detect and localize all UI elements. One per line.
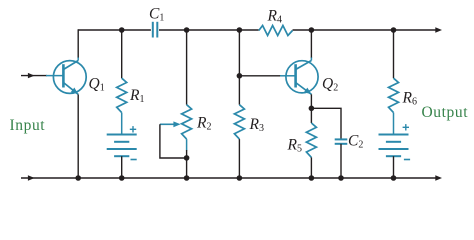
wire Q1 collector to top rail: [77, 29, 79, 57]
wire top rail: [78, 29, 436, 31]
battery B1: [107, 135, 137, 157]
wire R2 wiper bracket: [160, 124, 187, 158]
wire Q2 collector to top rail: [310, 29, 312, 57]
wire C2 top link: [311, 108, 341, 139]
node R3 / Q2 base: [237, 73, 243, 79]
node bottom rail / R5: [309, 175, 315, 181]
wire R2 top lead: [186, 30, 188, 105]
resistor R2 potentiometer: [182, 105, 192, 139]
wire input lead: [21, 75, 63, 77]
svg-text:Output: Output: [422, 104, 469, 121]
node bottom rail / R2: [184, 175, 190, 181]
node top rail / R2: [184, 27, 190, 33]
capacitor C1: [153, 22, 158, 38]
node bottom rail / R3: [237, 175, 243, 181]
resistor R5: [306, 123, 316, 157]
wire bottom rail left arrow: [28, 175, 35, 180]
wire battery B1 to bottom rail: [121, 156, 123, 178]
wire top rail right arrow: [435, 27, 442, 32]
label battery B1 plus: [130, 126, 136, 132]
node Q2 emitter junction: [309, 106, 315, 112]
transistor Q1: [53, 57, 86, 97]
wire input arrow: [28, 73, 35, 78]
label battery B2 plus: [403, 124, 409, 130]
wire C2 bottom lead: [340, 144, 342, 178]
wire R6 to battery B2: [393, 113, 395, 135]
capacitor C2: [335, 139, 348, 143]
battery B2: [379, 135, 409, 157]
node bottom rail / Q1 emitter: [75, 175, 81, 181]
wire R1 top lead: [121, 30, 123, 78]
wire R3 top lead: [238, 30, 240, 105]
resistor R3: [234, 105, 244, 139]
node top rail / Q2 collector: [309, 27, 315, 33]
wire Q2 base lead: [239, 75, 281, 77]
resistor R1: [117, 78, 127, 112]
wire R5 bottom lead: [310, 157, 312, 178]
wire R1 to battery B1: [121, 113, 123, 135]
wire R3 bottom lead: [238, 139, 240, 178]
wire R2 bottom lead: [186, 139, 188, 178]
node bottom rail / C2: [338, 175, 344, 181]
label battery B1 minus: [131, 159, 137, 161]
wire R2 wiper arrow: [160, 121, 181, 127]
node bottom rail / battery B1: [119, 175, 125, 181]
label battery B2 minus: [404, 159, 410, 161]
node top rail / R1: [119, 27, 125, 33]
wire Q1 emitter to bottom rail: [77, 94, 79, 178]
wire R6 top lead: [393, 30, 395, 78]
wire battery B2 to bottom rail: [393, 156, 395, 178]
wire Q2 emitter lead: [310, 94, 312, 108]
resistor R6: [389, 78, 399, 112]
transistor Q2: [286, 57, 318, 97]
wire R5 top lead: [310, 108, 312, 123]
node top rail / R3: [237, 27, 243, 33]
node bottom rail / battery B2: [391, 175, 397, 181]
wire bottom rail: [21, 177, 436, 179]
node top rail / R6: [391, 27, 397, 33]
wire bottom rail right arrow: [435, 175, 442, 180]
svg-text:Input: Input: [10, 117, 46, 134]
node R2 bottom junction: [184, 155, 190, 161]
resistor R4: [259, 26, 293, 36]
